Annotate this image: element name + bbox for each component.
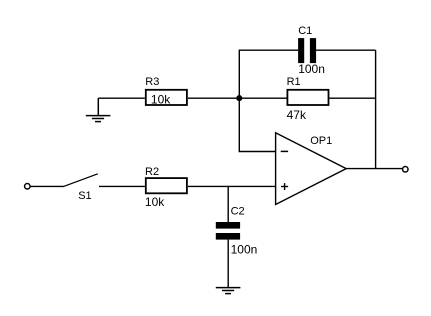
terminal: input open-circle [25,184,31,190]
wire: C1 to feedback line [316,49,376,51]
wire: R3 to node A [188,97,239,99]
svg-text:R3: R3 [145,76,159,88]
resistor R3 [146,90,187,105]
svg-text:10k: 10k [145,195,165,209]
svg-text:R2: R2 [145,166,159,178]
wire: switch contact to R2 [99,185,145,187]
svg-text:S1: S1 [78,190,91,202]
ground (left) [86,98,111,121]
svg-text:C1: C1 [298,25,312,37]
wire: node A up and right to C1 [239,50,298,98]
resistor R1 [287,90,328,105]
svg-text:100n: 100n [231,243,258,257]
wire: op-amp output [346,168,402,170]
wire: node A down to inverting input [239,98,275,151]
wire: C2 to ground [227,240,229,288]
svg-text:OP1: OP1 [310,135,332,147]
svg-text:R1: R1 [287,76,301,88]
junction dot node A [236,95,242,101]
wire: junction down to C2 [227,186,229,222]
op-amp OP1 [276,133,347,205]
wire: input terminal to switch pivot [30,185,64,187]
capacitor C2 [216,222,240,240]
wire: R2 to op-amp non-inverting input [188,185,276,187]
terminal: output open-circle [403,167,409,173]
switch S1 (open blade) [64,174,98,187]
svg-text:100n: 100n [298,62,325,76]
capacitor C1 [298,38,316,63]
svg-text:10k: 10k [151,92,171,106]
wire: node A to R1 [239,97,286,99]
svg-text:C2: C2 [231,206,245,218]
wire: feedback vertical line [375,50,377,168]
wire: left ground to R3 [98,97,145,99]
wire: R1 to feedback line [329,97,375,99]
svg-text:47k: 47k [287,108,307,122]
ground (bottom) [216,288,241,294]
resistor R2 [146,178,187,193]
